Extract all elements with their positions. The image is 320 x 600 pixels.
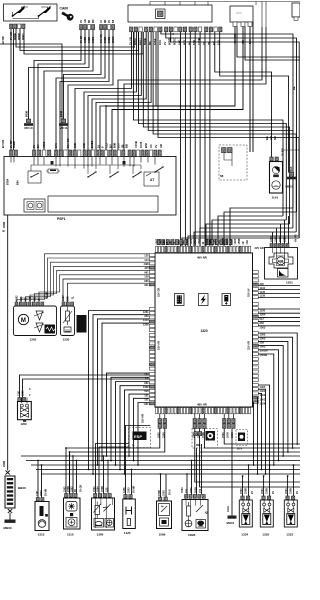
- svg-text:B00B: B00B: [25, 111, 28, 117]
- wire to 1360 pin3: [103, 456, 105, 494]
- wire 1141 to right edge: [283, 149, 301, 151]
- junction 1313 pin2: [41, 464, 43, 466]
- injector 1334 nozzle dark box: [242, 514, 250, 525]
- wire to 1360 pin4: [107, 461, 109, 494]
- wire connector g1b down-left to 1115: [70, 428, 165, 452]
- wire ECU left group2 3 down: [98, 319, 150, 465]
- svg-text:503: 503: [186, 488, 189, 493]
- svg-text:1115: 1115: [67, 533, 74, 537]
- svg-text:1246: 1246: [123, 487, 126, 493]
- wire ECU right group1 4 to edge: [258, 297, 300, 299]
- 11M1 top pins: [185, 495, 206, 499]
- BSI internal module inner: [158, 11, 164, 17]
- wire from left edge to PSF1: [0, 44, 62, 150]
- wire codes above injector 1335: [261, 488, 269, 494]
- bus line bottom 3: [31, 464, 300, 466]
- PSF1 dark mark 2: [123, 161, 126, 164]
- connector below ECU group1 row2: [158, 424, 167, 429]
- svg-text:B00B: B00B: [60, 111, 63, 117]
- wire to injector 1332 pin2: [293, 465, 295, 496]
- svg-text:80BD: 80BD: [12, 141, 16, 148]
- wire ECU left pin group1 3 to sensor: [26, 262, 150, 302]
- wire ECU left group3 4 down: [120, 386, 149, 470]
- svg-text:1503B: 1503B: [260, 353, 268, 357]
- wire ECU right group3 3 down: [258, 341, 288, 452]
- svg-text:CA00: CA00: [60, 7, 69, 11]
- svg-text:B00A: B00A: [290, 166, 293, 173]
- svg-text:1290: 1290: [270, 236, 273, 242]
- svg-text:8DBC: 8DBC: [112, 36, 115, 43]
- wire connector g2d down right: [200, 451, 300, 453]
- junction ECU left group3 6: [128, 455, 130, 457]
- wire module C pin2 heavy down: [112, 27, 243, 151]
- junction ECU right group3 2: [292, 447, 294, 449]
- svg-text:B5B: B5B: [113, 143, 117, 148]
- 1220 thermistor symbol: [63, 306, 72, 332]
- svg-text:1313: 1313: [38, 533, 45, 537]
- PSF1 bottom sub connector: [24, 199, 45, 212]
- nested bundle wire 2 into ECU top: [224, 212, 297, 246]
- wire to 11M1 pin3: [196, 448, 198, 495]
- 1360 resistor icon: [94, 502, 102, 519]
- PSF1 top pin strip left: [10, 150, 18, 157]
- connector row above ECU top pins left: [157, 240, 188, 245]
- svg-text:2V: 2V: [108, 20, 111, 23]
- wire ECU right group3 5 down: [258, 350, 278, 461]
- svg-text:503B: 503B: [195, 487, 198, 493]
- svg-text:32V AV: 32V AV: [247, 288, 251, 297]
- ECU left pin column group1: [149, 254, 155, 286]
- wire to injector 1335 pin2: [269, 465, 271, 496]
- wire to 11M1 pin2: [191, 461, 193, 495]
- PSF1 internal wires: [31, 161, 141, 174]
- wire ECU left pin group1 5 to sensor: [35, 271, 150, 302]
- ground ME10: [287, 173, 296, 180]
- MAP sensor dark box: [77, 315, 87, 333]
- svg-text:150B: 150B: [158, 490, 161, 496]
- svg-text:2V: 2V: [163, 42, 167, 45]
- 1360 top pins: [94, 494, 112, 498]
- wire codes under ignition connector: [9, 32, 25, 40]
- wire codes above injector 1332: [285, 488, 293, 494]
- ECU right pin column group3: [253, 332, 259, 356]
- svg-text:GR: GR: [269, 136, 273, 140]
- svg-text:1K50: 1K50: [226, 238, 229, 244]
- svg-text:1503: 1503: [190, 487, 193, 493]
- svg-text:C001: C001: [42, 141, 46, 148]
- junction injector 1332 pin1: [287, 475, 289, 477]
- wire to 1586 pin2: [165, 474, 167, 497]
- svg-text:1334: 1334: [241, 533, 248, 537]
- wire BSI pin r to ME10: [220, 32, 289, 173]
- connector strip E: [80, 25, 95, 30]
- svg-text:1503: 1503: [260, 397, 266, 401]
- svg-text:961: 961: [144, 270, 149, 274]
- ECU right pin column group1: [253, 271, 259, 299]
- wire to injector 1334 pin2: [248, 465, 250, 496]
- wire module C pin1 heavy down: [106, 27, 235, 151]
- svg-text:1220: 1220: [62, 295, 65, 301]
- purge valve bowtie 1: [21, 408, 29, 412]
- wire to 1586 pin1: [160, 474, 162, 497]
- svg-text:1504: 1504: [279, 236, 282, 242]
- junction ECU right group3 1: [296, 443, 298, 445]
- wire ECU left group3 1 down: [107, 373, 150, 456]
- ECU bottom pin strip: [156, 408, 251, 414]
- PSF1 dark mark 1: [51, 161, 54, 164]
- svg-text:961: 961: [182, 240, 185, 245]
- wire ignition pin5 right: [24, 29, 143, 54]
- 1120 H icon: [126, 507, 132, 515]
- svg-text:96BB: 96BB: [84, 37, 87, 43]
- svg-text:MC11: MC11: [59, 126, 67, 130]
- svg-text:1S04: 1S04: [206, 238, 209, 244]
- PSF1 top pin strip right: [128, 150, 161, 157]
- cam sensor 1120 enclosure: [123, 499, 136, 529]
- connector strip under ignition switch: [10, 24, 26, 29]
- ECU left pin column group4: [149, 373, 155, 405]
- svg-text:1K50: 1K50: [227, 432, 230, 438]
- module D top right corner: [292, 3, 300, 17]
- splice X above battery: [5, 471, 9, 475]
- 11M1 internal wires: [186, 500, 208, 515]
- svg-text:961: 961: [34, 296, 37, 301]
- knock sensor 1313 enclosure: [35, 502, 49, 531]
- wire to 1115 pin2b: [69, 452, 71, 494]
- bus line bottom 2: [26, 460, 300, 462]
- svg-text:MH01: MH01: [227, 521, 235, 525]
- wire connector g2a down right low: [195, 428, 300, 482]
- purge valve bottom stub: [23, 420, 26, 422]
- injector 1332 terminal circles: [287, 500, 295, 508]
- injector injector 1334 enclosure: [239, 500, 252, 527]
- wire to 1251 pin2: [276, 228, 278, 244]
- svg-text:32V HR: 32V HR: [141, 414, 145, 423]
- wire ECU right group2 5: [258, 325, 300, 327]
- wire ECU left pin group1 2 to sensor: [21, 258, 149, 302]
- wire battery to ground: [9, 513, 11, 520]
- wire to 11M1 pin4: [201, 444, 203, 495]
- junction ECU right group3 3: [287, 451, 289, 453]
- wire codes below ECU group3: [222, 432, 234, 438]
- wire to injector 1334 pin1: [242, 476, 244, 496]
- wire ECU left pin group1 4 to sensor: [30, 266, 149, 302]
- nested bundle wire 8 into ECU top: [188, 236, 299, 246]
- 05 dark icon: [238, 433, 245, 442]
- 1120 bar icon: [127, 519, 130, 526]
- PSF1 contact arrow 4: [154, 161, 164, 173]
- ECU icon fuel pump: [222, 294, 231, 306]
- BSI bottom connector strip group5: [205, 27, 223, 32]
- junction 1313 pin1: [37, 460, 39, 462]
- svg-text:86BD: 86BD: [108, 37, 111, 43]
- svg-text:1120: 1120: [124, 531, 131, 535]
- svg-text:950: 950: [178, 240, 181, 245]
- svg-text:GR: GR: [159, 144, 163, 148]
- svg-text:16: 16: [97, 145, 101, 148]
- wire connector g3a down: [224, 428, 300, 444]
- injector injector 1335 enclosure: [260, 500, 273, 527]
- wire staircase r5: [153, 32, 296, 232]
- 11M1 pump dark icon: [196, 520, 206, 529]
- svg-text:4/98: 4/98: [144, 262, 150, 266]
- svg-text:1503: 1503: [210, 238, 213, 244]
- 11M1 slash: [196, 505, 203, 512]
- svg-text:1261: 1261: [36, 490, 39, 496]
- nested bundle wire 3 into ECU top: [218, 216, 283, 246]
- module C pin stubs: [233, 22, 252, 27]
- 1120 top pins: [124, 495, 132, 499]
- svg-text:28V GR: 28V GR: [66, 138, 70, 148]
- svg-text:1503m: 1503m: [260, 349, 269, 353]
- 1115 sensor circle: [66, 518, 77, 528]
- svg-text:1320: 1320: [201, 329, 208, 333]
- wire strip F pin3 to PSF1: [60, 30, 109, 150]
- PSF1 contact arrow 2: [109, 166, 119, 178]
- wire ignition pin1 down to PSF1: [10, 29, 12, 150]
- ECU left pin column group3: [149, 334, 155, 371]
- svg-text:150B: 150B: [244, 488, 247, 494]
- svg-text:80BC: 80BC: [92, 37, 95, 43]
- throttle body 1262 enclosure: [14, 306, 57, 336]
- svg-text:7--: 7--: [132, 445, 135, 448]
- 1360 cross circle icon: [105, 519, 114, 528]
- 1586 bottom bar box: [160, 518, 169, 526]
- dashed box ESP: [129, 428, 151, 448]
- BSI bottom connector strip group3: [165, 27, 187, 32]
- wire codes above PSF1 left: [1, 139, 16, 148]
- junction 1120 pin2: [131, 469, 133, 471]
- svg-text:XC: XC: [149, 144, 153, 148]
- junction 11M1 pin1: [186, 473, 188, 475]
- wire to 1115 pin2: [69, 452, 71, 494]
- junction ECU right group3 4: [282, 455, 284, 457]
- connector below ECU group2 row2: [193, 424, 206, 429]
- svg-text:1332: 1332: [286, 533, 293, 537]
- ECU left pin labels group4: [143, 372, 149, 405]
- svg-text:12B: 12B: [29, 296, 32, 301]
- 1313 top pins: [36, 498, 44, 502]
- nested bundle wire 5 into ECU top: [206, 224, 290, 246]
- junction 1115 pin4: [76, 460, 78, 462]
- wire connector g1a down-left to 1115: [66, 428, 160, 448]
- 1360 pressure membrane icon: [94, 519, 104, 528]
- PSF1 contact arrow 1: [87, 166, 97, 178]
- wire ECU left group2 1 down: [89, 311, 150, 470]
- wire to 1360 pin1: [96, 444, 129, 494]
- wire BSI pin n down to ECU: [199, 32, 201, 246]
- svg-text:2V: 2V: [251, 491, 254, 494]
- svg-text:32V AR: 32V AR: [247, 341, 251, 350]
- svg-text:1269: 1269: [22, 390, 25, 396]
- svg-text:AV HR: AV HR: [295, 234, 298, 242]
- module D pin stub: [294, 17, 298, 21]
- svg-text:129: 129: [144, 275, 149, 279]
- svg-text:ME10: ME10: [286, 185, 294, 189]
- svg-text:161A: 161A: [227, 506, 230, 512]
- svg-text:2V NR: 2V NR: [281, 148, 285, 156]
- svg-text:MB30: MB30: [4, 526, 12, 530]
- PSF1 top pin strip mid3: [83, 150, 125, 157]
- injector 1335 nozzle dark box: [263, 514, 271, 525]
- svg-text:1503: 1503: [128, 487, 131, 493]
- wire right edge vert A: [118, 27, 262, 150]
- svg-text:2V NR: 2V NR: [133, 486, 136, 493]
- junction ECU left group2 2: [92, 473, 94, 475]
- wire ECU left pin group1 8 to sensor: [68, 283, 150, 302]
- oxygen sensor 1115 enclosure: [64, 498, 81, 529]
- 1251 fuel gauge sub box: [278, 269, 289, 278]
- junction ECU right group5 5: [253, 464, 255, 466]
- purge valve bowtie 2: [21, 413, 29, 417]
- wire ECU right group5 4 down: [257, 398, 260, 474]
- wire codes above PSF1 mid: [32, 138, 129, 148]
- wire codes above GMV: [18, 390, 25, 396]
- ground bar MB30: [5, 520, 16, 523]
- svg-text:1261: 1261: [18, 390, 21, 396]
- junction upper maze A: [105, 105, 107, 107]
- junction ECU right group5 2: [265, 473, 267, 475]
- svg-text:1J29: 1J29: [190, 238, 193, 244]
- svg-text:1J50: 1J50: [214, 238, 217, 244]
- svg-text:BV: BV: [109, 144, 113, 148]
- key symbol: [62, 12, 73, 21]
- junction ECU left group3 3: [115, 464, 117, 466]
- svg-text:150B: 150B: [238, 238, 241, 244]
- junction ECU right group5 4: [257, 473, 259, 475]
- svg-text:2AV: 2AV: [54, 143, 58, 148]
- svg-text:1360: 1360: [97, 533, 104, 537]
- svg-text:1K04: 1K04: [194, 238, 197, 244]
- wire staircase r2: [138, 32, 286, 220]
- wire codes under strip E: [80, 35, 95, 43]
- svg-text:49V NR: 49V NR: [197, 256, 207, 260]
- fuel pump unit 1251 enclosure: [265, 248, 298, 280]
- svg-text:10V8: 10V8: [139, 141, 143, 148]
- svg-text:1262: 1262: [198, 238, 201, 244]
- svg-text:MF: MF: [104, 19, 107, 23]
- wire ECU left group2 2 down: [93, 315, 149, 474]
- svg-text:ESP: ESP: [134, 434, 142, 439]
- junction ECU left group2 4: [101, 460, 103, 462]
- wire strip E pin1 to PSF1: [34, 30, 81, 150]
- wire codes above 1120: [123, 487, 131, 493]
- injector 1334 top pins: [241, 496, 250, 500]
- wire ECU right group3 6 down: [258, 354, 274, 465]
- wires dashed box 68: [224, 153, 232, 166]
- wire module C pin3 down: [249, 27, 251, 153]
- svg-text:150B: 150B: [101, 486, 104, 492]
- wire strip E pin4 to PSF1: [44, 30, 93, 150]
- ignition switch contact 2: [13, 6, 51, 19]
- 1220 top pins: [62, 302, 74, 306]
- wire to injector 1335 pin1: [263, 476, 265, 496]
- wire strip F pin1 to MC11: [64, 30, 102, 119]
- svg-text:B58: B58: [144, 143, 148, 148]
- svg-text:86BB: 86BB: [104, 37, 107, 43]
- junction 1115 pin3: [72, 455, 74, 457]
- splice X below battery: [8, 509, 12, 513]
- svg-text:2V GR: 2V GR: [80, 35, 83, 43]
- wire staircase r4: [148, 32, 293, 228]
- wire to ground MH01: [231, 446, 233, 516]
- wire to 1360 pin2: [99, 447, 129, 494]
- svg-text:B84: B84: [17, 180, 20, 185]
- dashed box BD-1: [192, 429, 218, 449]
- dashed box 68 pins: [222, 148, 233, 153]
- wire BSI pin q to 1141 area: [215, 32, 272, 157]
- battery BB00: [5, 476, 15, 508]
- svg-text:80DC: 80DC: [173, 38, 177, 45]
- wire codes right mid: [265, 136, 277, 140]
- 1313 small square: [45, 514, 48, 517]
- wire ECU right group3 2 down: [258, 337, 292, 448]
- wire ECU left group3 5 down: [125, 390, 150, 474]
- ECU left pin labels group2: [143, 310, 149, 327]
- wire codes below ECU group1: [158, 432, 166, 438]
- wire codes above 1251: [270, 236, 287, 242]
- 1313 internal bar: [40, 506, 44, 516]
- wire ECU right group5 5 down: [254, 402, 259, 465]
- 1251 top pin strip: [270, 244, 289, 248]
- svg-text:1S03: 1S03: [234, 238, 237, 244]
- svg-text:150S: 150S: [275, 236, 278, 242]
- wire codes under module C: [233, 34, 252, 44]
- svg-text:2V N: 2V N: [169, 489, 172, 495]
- junction 11M1 pin2: [191, 460, 193, 462]
- wire to 1120 pin2: [131, 470, 133, 495]
- wire ECU right group3 4 down: [258, 346, 283, 456]
- svg-text:BCD5: BCD5: [90, 140, 94, 148]
- svg-text:BB00: BB00: [18, 486, 26, 490]
- wire codes above injector 1334: [240, 488, 248, 494]
- PSF1 bottom connector circles: [27, 202, 43, 210]
- ignition switch unit CA00 enclosure: [4, 4, 58, 21]
- svg-text:3V GR: 3V GR: [80, 485, 83, 492]
- svg-text:1503: 1503: [186, 238, 189, 244]
- dashed box 68: [219, 145, 247, 180]
- svg-text:150S: 150S: [163, 490, 166, 496]
- purge valve unit enclosure: [18, 402, 32, 420]
- bus line bottom 5: [41, 473, 300, 475]
- wire BSI pin g to right edge: [161, 32, 293, 208]
- 1262 potentiometer 1: [34, 311, 44, 332]
- PSF1 internal pin stub wires: [11, 157, 155, 169]
- 1360 pressure slash: [103, 504, 111, 512]
- wire BSI pin j down to ECU: [180, 32, 182, 246]
- 11M1 resistor vertical: [187, 502, 191, 520]
- 1586 sub box with arrow: [159, 504, 170, 516]
- dashed box 05: [236, 430, 248, 446]
- svg-text:20DB: 20DB: [3, 222, 6, 228]
- wire strip F pin2 to PSF1: [56, 30, 105, 150]
- wire BSI pin a to PSF1: [75, 32, 132, 150]
- wire GMV pin2 to ECU: [23, 379, 150, 398]
- wires ECU bottom to connectors: [160, 414, 234, 419]
- 1360 internal divider wires: [95, 498, 112, 528]
- wire BSI pin p down to ECU: [209, 32, 211, 246]
- connector below ECU group2 row1: [193, 419, 206, 424]
- wire ignition pin3 right: [16, 29, 134, 47]
- wire module C pin right bend 2: [245, 27, 300, 61]
- wire to 1313 pin2: [41, 465, 43, 498]
- svg-text:PSF1: PSF1: [57, 217, 66, 221]
- svg-text:11M1: 11M1: [188, 533, 196, 537]
- junction ECU right group5 3: [261, 469, 263, 471]
- PSF1 contact arrow 3: [132, 166, 142, 178]
- ECU left pin column group2: [149, 308, 155, 332]
- svg-text:1361: 1361: [260, 389, 266, 393]
